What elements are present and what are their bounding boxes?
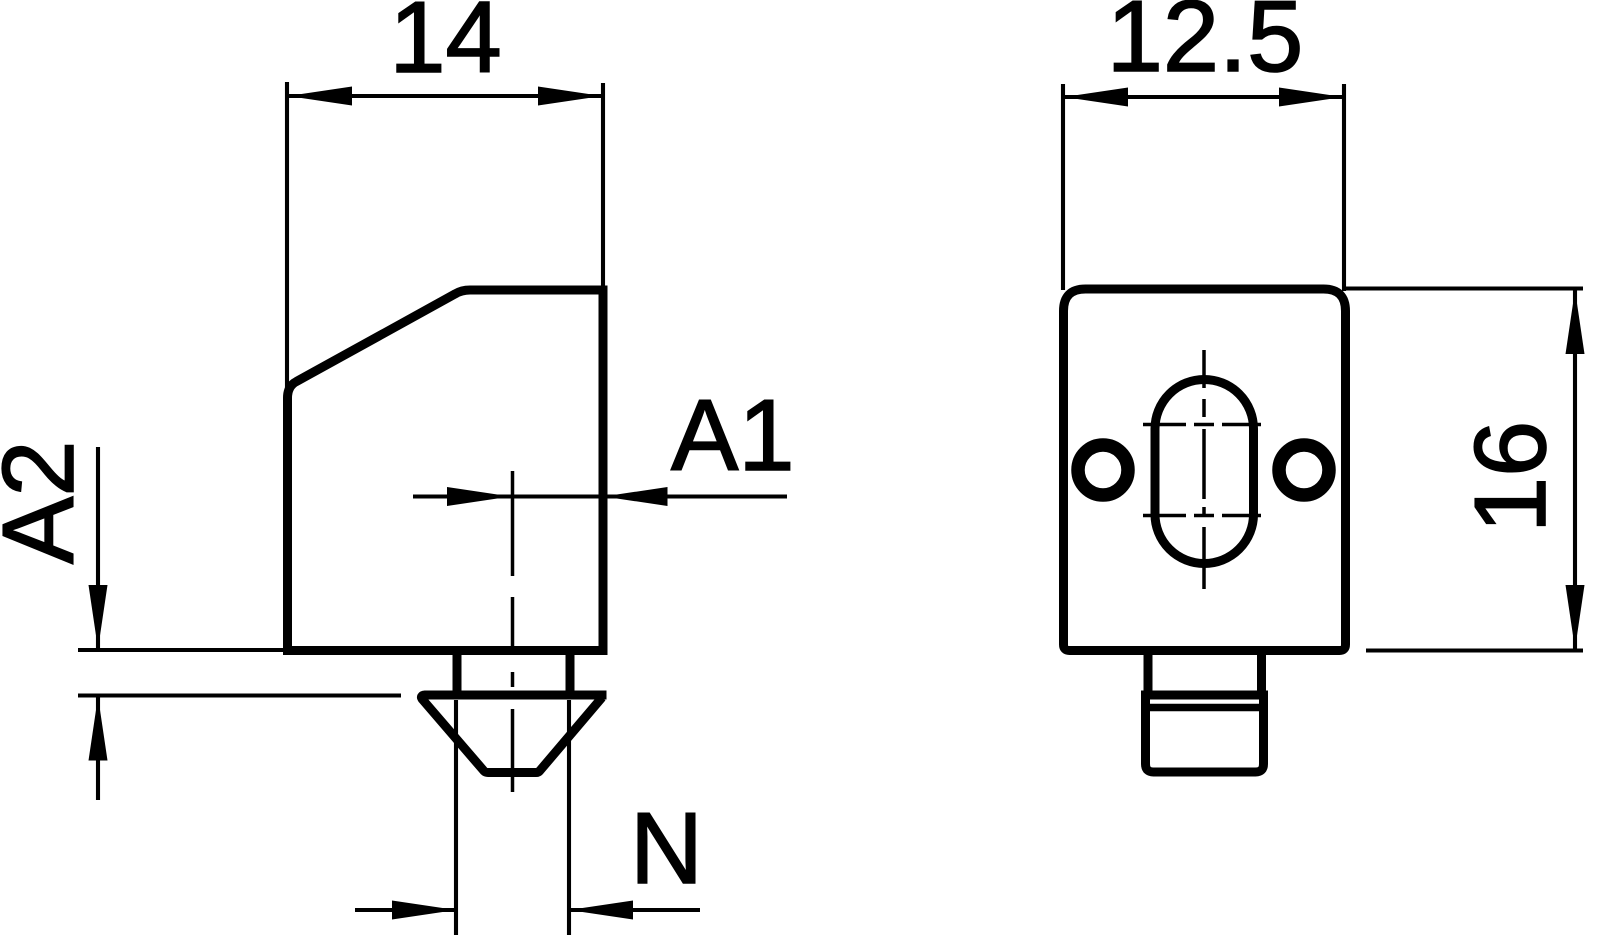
svg-text:A2: A2 (0, 440, 95, 564)
svg-text:N: N (630, 793, 703, 905)
dimension A2 line lower (96, 697, 100, 800)
right view lower horizontal centerline (1143, 514, 1261, 518)
dimension 14 extension line left (285, 82, 289, 392)
dimension A2 line upper (96, 447, 100, 648)
dimension 12.5 extension line right (1342, 84, 1346, 291)
right view right hole (1279, 445, 1329, 495)
dimension 12.5 extension line left (1061, 84, 1065, 290)
dimension 14 line (287, 94, 603, 98)
left view flange top line (421, 695, 606, 773)
svg-text:16: 16 (1455, 421, 1567, 533)
dimension N arrow right-pointing (392, 901, 456, 920)
dimension N extension line right (567, 700, 571, 935)
dimension A1 arrow to body edge (604, 487, 668, 506)
dimension A1 arrow to centerline (447, 487, 511, 506)
dimension 14 arrow left (288, 87, 352, 106)
dimension N arrow left-pointing (569, 901, 633, 920)
svg-text:A1: A1 (671, 380, 795, 492)
right view vertical centerline (1202, 350, 1206, 589)
left view body outline (288, 290, 604, 651)
dimension 12.5 arrow left (1064, 88, 1128, 107)
dimension 16 arrow up (1566, 290, 1585, 354)
dimension A1 line (413, 494, 787, 498)
right view left hole (1078, 445, 1128, 495)
dimension N line left part (355, 908, 454, 912)
dimension 16 arrow down (1566, 585, 1585, 649)
left view stud neck right line (566, 651, 575, 694)
right view stud neck left line (1144, 651, 1153, 693)
dimension 16 extension line top (1346, 286, 1583, 290)
dimension N line right part (569, 908, 700, 912)
svg-text:14: 14 (389, 0, 501, 94)
right view slot (stadium) (1155, 380, 1254, 564)
dimension 16 line (1573, 289, 1577, 650)
dimension 16 extension line bottom (1366, 648, 1583, 652)
dimension A2 arrow up (89, 697, 108, 761)
right view body outline (1064, 289, 1346, 651)
dimension A2 extension line lower (78, 693, 401, 697)
dimension 14 arrow right (538, 87, 602, 106)
dimension N extension line left (454, 700, 458, 935)
right view stud neck right line (1257, 651, 1266, 693)
left view stud neck left line (453, 651, 462, 694)
dimension A2 extension line upper (78, 648, 288, 652)
right view flange outline (1146, 695, 1264, 772)
svg-text:12.5: 12.5 (1107, 0, 1304, 93)
dimension A2 arrow down (89, 585, 108, 649)
dimension 12.5 arrow right (1279, 88, 1343, 107)
dimension 12.5 line (1063, 95, 1344, 99)
dimension 14 extension line right (601, 83, 605, 288)
right view upper horizontal centerline (1143, 423, 1261, 427)
left view centerline (stud axis) (511, 471, 515, 792)
right view flange edge line (1148, 704, 1261, 712)
